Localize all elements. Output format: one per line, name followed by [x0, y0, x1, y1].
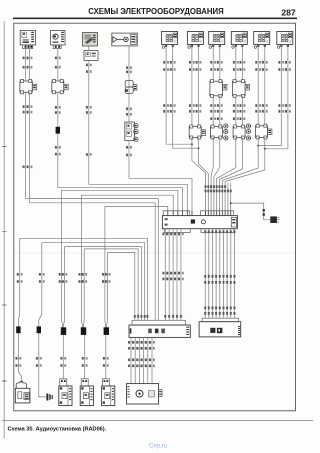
speaker feed rail [64, 247, 141, 321]
speaker LS3 [102, 379, 115, 406]
speaker wire W3 below splice [62, 335, 64, 379]
connector block X1 (lower left) [129, 320, 190, 337]
wire rail 4 (speaker pair feed) [62, 190, 178, 211]
connector C3 (top right row) [209, 32, 225, 49]
ground wire from harness [231, 203, 271, 220]
radio bottom-right harness to connector [204, 229, 206, 319]
connector P1 (bottom left) [15, 381, 30, 403]
speaker feed rail [42, 243, 145, 321]
relay R1 (left) [20, 79, 37, 93]
speaker wire W1 [18, 238, 21, 383]
connector C5 (top right row) [254, 32, 270, 49]
page left edge line [3, 21, 5, 438]
connector K1 (top-left) [20, 31, 35, 49]
svg-text:Схема 30. Аудиоустановка (RAD0: Схема 30. Аудиоустановка (RAD06). [8, 427, 107, 433]
radio bottom-left speaker wires [164, 229, 166, 321]
relay R10 [233, 124, 250, 140]
CD changer unit U2 (bottom) [127, 384, 163, 404]
radio top pin ticks [167, 211, 169, 216]
wire below R2 with splice [57, 92, 59, 188]
wire from K2 [57, 49, 59, 81]
connector C1 (top right row) [162, 32, 178, 49]
footer rule [2, 420, 313, 422]
connector K2 (top) [51, 31, 65, 49]
wire rail 6 (to lower connector) [26, 199, 159, 321]
svg-text:СХЕМЫ ЭЛЕКТРООБОРУДОВАНИЯ: СХЕМЫ ЭЛЕКТРООБОРУДОВАНИЯ [88, 7, 224, 16]
connector below M3 [84, 51, 98, 61]
antenna coax wire [128, 46, 130, 122]
speaker LS1 [59, 379, 72, 406]
relay R6 (mid upper) [210, 80, 227, 98]
speaker wire W4 below splice [84, 335, 86, 379]
svg-text:Спр.ru: Спр.ru [149, 444, 167, 450]
svg-text:287: 287 [281, 7, 296, 17]
header rule [13, 17, 297, 19]
speaker pair wires (right of pair) from lower rails [63, 247, 66, 328]
left edge tick marks [2, 146, 6, 148]
connector C6 (top right row) [277, 32, 293, 49]
ground point G2 (bottom) [46, 394, 53, 401]
inline antenna connector A6 [125, 80, 137, 93]
connector C2 (top right row) [187, 32, 203, 49]
speaker feed rail [20, 238, 148, 320]
wire rail 3 [58, 188, 183, 211]
wires below mid relays [212, 96, 214, 126]
connector block X2 (lower right) [199, 318, 241, 337]
labels on harness wires [205, 185, 207, 188]
ground point G1 [270, 216, 279, 223]
antenna unit A4 (top) [112, 33, 138, 46]
wires below block X1 [130, 337, 132, 383]
speaker feed rail [108, 252, 135, 320]
speaker wire W2 [39, 243, 47, 397]
speaker LS2 [80, 379, 93, 406]
device M3 (top, shaded) [83, 33, 98, 47]
antenna wire below amplifier [128, 141, 130, 179]
labels on connector wires [163, 61, 169, 64]
wire rail 1 (antenna to radio) [129, 178, 192, 211]
wire from connector M3 [88, 60, 90, 184]
relay R7 (mid upper) [233, 80, 250, 98]
relay R11 [256, 124, 272, 139]
schematic border frame [14, 23, 296, 411]
wires from connectors C1..C6 [165, 45, 167, 145]
wire rail 5 (speaker pair feed) [81, 195, 173, 211]
wire pair from K1 [25, 49, 27, 81]
wire rail 2 [89, 184, 188, 211]
labels and splices on speaker wires [17, 273, 23, 276]
wires below R1 [25, 92, 27, 198]
radio unit U1 [162, 211, 237, 233]
relay R8 [189, 125, 205, 139]
wire rail 8 (speaker pair feed) [105, 207, 168, 211]
relay output wires gathering into harness [192, 138, 206, 211]
antenna amplifier A5 [125, 122, 138, 141]
speaker feed rail [84, 249, 138, 320]
relay R2 (left) [52, 79, 68, 93]
joins from connector C1 to relay R8 outputs [166, 143, 192, 145]
speaker pair wires (left of pair) from rails [81, 195, 82, 327]
connector C4 (top right row) [231, 32, 247, 49]
relay R9 [210, 124, 228, 140]
speaker wire W5 below splice [105, 335, 107, 379]
wire rail 7 (to lower connector) [30, 203, 156, 320]
faint fold line [15, 252, 296, 254]
